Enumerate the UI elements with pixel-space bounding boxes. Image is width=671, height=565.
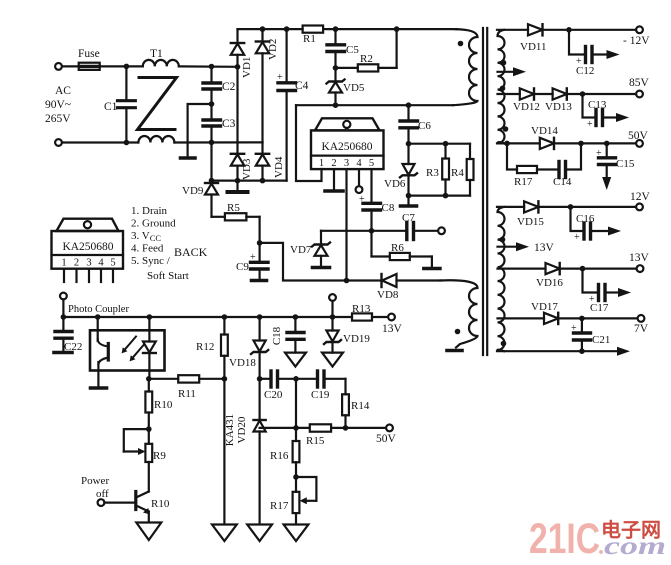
node junction opto collector — [95, 314, 101, 320]
capacitor C13 — [583, 94, 617, 130]
wire C3 to VD9 — [210, 142, 212, 181]
svg-text:C9: C9 — [236, 261, 249, 273]
svg-text:BACK: BACK — [174, 245, 208, 259]
wire VD1 to VD3 — [236, 67, 238, 154]
diode VD19 zener — [324, 317, 341, 353]
svg-text:21IC: 21IC — [529, 515, 600, 563]
diode opto LED — [143, 317, 156, 379]
node junction R3 bottom — [443, 193, 449, 199]
svg-text:C8: C8 — [382, 202, 395, 214]
diode VD20 — [254, 379, 266, 524]
svg-text:2: 2 — [74, 258, 79, 269]
wire arrow C16 return — [608, 227, 621, 236]
svg-text:3: 3 — [86, 258, 91, 269]
node junction VD18 top — [257, 314, 263, 320]
capacitor C12 — [569, 30, 607, 67]
svg-text:R17: R17 — [514, 176, 533, 188]
node junction R3 top — [443, 141, 449, 147]
svg-text:C6: C6 — [418, 120, 431, 132]
wire R16 column top — [295, 379, 297, 441]
resistor R13 — [352, 313, 388, 320]
wire arrow bottom return — [617, 347, 630, 356]
node junction R16 top — [293, 425, 299, 431]
svg-text:VD5: VD5 — [343, 82, 365, 94]
svg-text:5. Sync /: 5. Sync / — [131, 255, 171, 267]
svg-text:+: + — [596, 148, 602, 159]
svg-text:2: 2 — [331, 158, 336, 169]
node junction R16-R17 — [293, 474, 299, 480]
label pin list — [131, 205, 189, 282]
svg-text:R15: R15 — [306, 435, 325, 447]
svg-text:R2: R2 — [360, 53, 373, 65]
transformer T2 primary top winding — [453, 29, 478, 105]
svg-text:C18: C18 — [271, 326, 283, 345]
diode VD2 — [256, 29, 269, 142]
svg-text:+: + — [277, 72, 283, 83]
node junction C3 bottom — [209, 140, 215, 146]
node terminal 50V — [636, 140, 643, 147]
svg-text:1. Drain: 1. Drain — [131, 205, 168, 217]
node junction C21 bottom — [579, 348, 585, 354]
capacitor C1 — [118, 66, 136, 142]
svg-text:VD9: VD9 — [182, 185, 204, 197]
svg-text:com: com — [604, 533, 666, 560]
resistor R17 secondary — [507, 143, 558, 173]
node junction C22 top — [61, 314, 67, 320]
node phase dot secondary 85V — [500, 86, 506, 92]
svg-text:R10: R10 — [154, 399, 173, 411]
diode VD11 — [528, 24, 636, 35]
svg-text:C7: C7 — [402, 212, 415, 224]
svg-text:C3: C3 — [222, 118, 236, 130]
svg-text:1: 1 — [61, 258, 66, 269]
svg-text:5: 5 — [110, 258, 115, 269]
svg-text:Photo Coupler: Photo Coupler — [68, 304, 129, 315]
label pinout numbers — [61, 258, 115, 269]
resistor R9 potentiometer — [124, 429, 152, 491]
diode VD3 — [231, 154, 244, 181]
svg-text:R4: R4 — [451, 167, 464, 179]
svg-text:4: 4 — [98, 258, 104, 269]
svg-text:VD13: VD13 — [545, 101, 572, 113]
svg-text:Fuse: Fuse — [78, 48, 100, 60]
node junction R9 top — [146, 426, 152, 432]
node junction C9 top — [257, 240, 263, 246]
svg-text:VD20: VD20 — [236, 416, 248, 443]
svg-text:1: 1 — [319, 158, 324, 169]
wire pinout leads — [64, 269, 113, 282]
svg-text:C19: C19 — [311, 389, 330, 401]
node junction C14 right — [578, 141, 584, 147]
wire C2-C3 midpoint to ground — [188, 104, 212, 156]
node terminal 7V — [638, 315, 645, 322]
svg-text:C13: C13 — [588, 99, 607, 111]
node junction VD18 bottom — [257, 376, 263, 382]
svg-text:R12: R12 — [196, 341, 214, 353]
node junction VD6 bottom — [406, 193, 412, 199]
ground VD19 — [322, 353, 343, 367]
svg-text:VD14: VD14 — [531, 125, 558, 137]
diode VD13 — [553, 88, 636, 99]
resistor R16 — [293, 441, 300, 477]
svg-text:50V: 50V — [628, 130, 649, 142]
svg-text:VD19: VD19 — [343, 333, 370, 345]
wire feedback top rail — [63, 316, 352, 318]
svg-text:5: 5 — [369, 158, 374, 169]
node junction R14 bottom — [343, 425, 349, 431]
ground KA431 — [212, 525, 237, 542]
wire arrow C12 return — [607, 50, 620, 59]
wire 12V rail — [497, 206, 524, 208]
svg-text:R5: R5 — [227, 202, 240, 214]
svg-text:VD12: VD12 — [513, 101, 540, 113]
node terminal -12V — [636, 26, 643, 33]
node terminal power off — [98, 499, 105, 506]
wire DC- bottom bus — [212, 180, 287, 182]
svg-text:C5: C5 — [346, 44, 359, 56]
wire tap arrow 13V — [498, 242, 530, 251]
svg-text:Soft Start: Soft Start — [147, 270, 189, 282]
svg-text:2. Ground: 2. Ground — [131, 218, 176, 230]
node junction C5-R2 — [333, 65, 339, 71]
node junction pin3 — [344, 278, 350, 284]
ground C9 — [252, 279, 267, 283]
svg-text:C16: C16 — [576, 213, 595, 225]
node junction C5 top — [333, 26, 339, 32]
wire pin1 loop — [296, 105, 322, 181]
node junction pin5-C8 — [369, 228, 375, 234]
wire — [179, 65, 238, 68]
node phase dot secondary 12V — [500, 237, 506, 243]
wire pin4 — [358, 169, 360, 186]
wire secondary bottom rail — [497, 350, 617, 352]
node junction R17 left — [504, 141, 510, 147]
node junction R12 top — [222, 314, 228, 320]
node terminal 50V feedback — [386, 425, 393, 432]
svg-text:265V: 265V — [45, 113, 71, 125]
node terminal 12V — [636, 204, 643, 211]
resistor R6 — [372, 231, 432, 267]
node junction C2-C3 — [209, 101, 215, 107]
wire 50V rail — [497, 142, 540, 144]
node junction C20-C19 — [293, 376, 299, 382]
node junction R2 top — [394, 26, 400, 32]
node junction C6 bottom — [406, 141, 412, 147]
resistor R1 — [303, 26, 324, 33]
svg-text:- 12V: - 12V — [623, 35, 650, 47]
capacitor C21 — [571, 318, 591, 351]
svg-text:90V~: 90V~ — [45, 99, 71, 111]
svg-text:C2: C2 — [222, 81, 236, 93]
svg-text:R9: R9 — [153, 450, 166, 462]
svg-text:4: 4 — [356, 158, 362, 169]
label pin numbers — [319, 158, 374, 169]
svg-text:13V: 13V — [534, 242, 555, 254]
svg-text:R1: R1 — [303, 33, 316, 45]
label AC 90V~265V — [45, 85, 71, 125]
transformer T2 secondary winding 1 — [498, 30, 505, 144]
transformer T2 core — [483, 28, 487, 355]
wire DC+ top bus — [238, 28, 458, 30]
node junction LED bottom — [146, 376, 152, 382]
node phase dot secondary -12V — [501, 60, 507, 66]
node phase dot secondary bottom — [501, 341, 507, 347]
wire VD7 branch — [321, 230, 372, 232]
svg-text:VD18: VD18 — [229, 357, 256, 369]
capacitor C14 — [559, 143, 581, 177]
wire C9 junction to VD8 line — [260, 243, 382, 281]
capacitor C6 — [400, 105, 418, 144]
svg-text:T1: T1 — [150, 48, 163, 60]
node junction C6 top — [406, 102, 412, 108]
op-amp U1 KA250680 package — [311, 118, 384, 169]
svg-text:R10: R10 — [151, 498, 170, 510]
svg-text:VD4: VD4 — [273, 156, 285, 178]
svg-text:VD8: VD8 — [377, 289, 399, 301]
wire R3 R4 top — [409, 143, 471, 145]
node junction R12 bottom — [222, 376, 228, 382]
node junction C16 top — [568, 204, 574, 210]
svg-text:+: + — [359, 194, 365, 205]
node AC input terminal top — [55, 63, 62, 70]
diode VD8 — [382, 274, 442, 287]
transformer T2 secondary winding 2 — [498, 207, 505, 351]
core T1 Z symbol — [138, 78, 177, 130]
resistor R12 — [221, 317, 228, 379]
svg-text:+: + — [571, 323, 577, 334]
svg-text:R3: R3 — [426, 167, 439, 179]
svg-text:+: + — [250, 252, 256, 263]
node pin4 terminal — [356, 186, 363, 193]
svg-text:AC: AC — [55, 85, 71, 97]
capacitor C4 — [277, 29, 296, 181]
node C7 terminal — [438, 227, 445, 234]
inductor T1 bottom winding — [138, 136, 174, 142]
node junction C1 bottom — [124, 140, 130, 146]
node junction VD4 bottom — [260, 178, 266, 184]
wire pin3 column — [345, 169, 347, 280]
svg-text:VD2: VD2 — [267, 39, 279, 60]
capacitor C20 — [260, 371, 296, 387]
ground VD20 — [247, 525, 272, 542]
capacitor C5 — [327, 29, 345, 68]
diode VD5 zener — [327, 68, 345, 105]
wire — [174, 141, 262, 143]
node junction C2 top — [209, 64, 215, 70]
op-amp U2 KA250680 pinout package — [52, 219, 124, 269]
ground VD6 — [401, 196, 417, 206]
diode VD14 — [540, 138, 636, 149]
node phase dot secondary 50V — [503, 126, 509, 132]
node terminal 85V — [636, 91, 643, 98]
svg-text:Power: Power — [81, 475, 109, 487]
node junction VD5 bottom — [333, 102, 339, 108]
diode VD7 zener — [312, 231, 330, 266]
node junction VD2 top — [260, 26, 266, 32]
ground opto emitter — [91, 386, 107, 390]
wire 7V rail — [498, 317, 545, 319]
resistor R14 — [342, 379, 349, 428]
wire R3 R4 bottom — [409, 195, 471, 197]
wire terminal to rail — [331, 301, 333, 317]
ground — [181, 156, 196, 160]
node terminal feedback — [329, 294, 336, 301]
svg-text:13V: 13V — [629, 252, 650, 264]
resistor R4 — [467, 144, 474, 196]
node junction VD9 top — [209, 178, 215, 184]
svg-text:13V: 13V — [382, 323, 403, 335]
capacitor C7 — [372, 223, 439, 240]
diode VD17 — [544, 313, 638, 324]
node junction C18 top — [293, 314, 299, 320]
label Power off — [81, 475, 109, 500]
svg-text:VD16: VD16 — [536, 277, 563, 289]
wire terminal down — [62, 299, 64, 317]
svg-text:C1: C1 — [104, 101, 118, 113]
node junction VD1-AC — [235, 64, 241, 70]
wire — [62, 65, 79, 67]
svg-text:VD7: VD7 — [290, 244, 312, 256]
wire 85V rail — [498, 93, 520, 95]
svg-text:C21: C21 — [592, 334, 610, 346]
svg-text:R11: R11 — [178, 388, 196, 400]
svg-text:VD11: VD11 — [520, 41, 546, 53]
capacitor C15 — [596, 143, 616, 177]
svg-text:+: + — [574, 232, 580, 243]
node terminal 13V feedback — [388, 314, 395, 321]
svg-text:50V: 50V — [376, 433, 397, 445]
diode VD6 zener — [400, 144, 417, 196]
node terminal 13V — [637, 265, 644, 272]
wire arrow C13 return — [616, 113, 629, 122]
capacitor C8 — [359, 194, 381, 231]
svg-text:VD1: VD1 — [241, 57, 253, 78]
capacitor C22 — [55, 317, 72, 351]
wire KA431 column — [223, 379, 225, 524]
wire 13V rail — [498, 268, 546, 270]
svg-text:R17: R17 — [270, 500, 289, 512]
capacitor C3 — [203, 104, 221, 142]
wire drain rail — [296, 104, 453, 106]
svg-text:KA431: KA431 — [224, 414, 236, 446]
node junction C12 top — [566, 27, 572, 33]
optocoupler U3 box — [90, 330, 165, 370]
capacitor C16 — [571, 207, 609, 243]
node junction LED top — [147, 314, 153, 320]
ground bridge return — [228, 181, 248, 192]
svg-text:+: + — [587, 119, 593, 130]
svg-text:C4: C4 — [295, 80, 309, 92]
diode VD16 — [546, 263, 637, 274]
svg-text:C14: C14 — [553, 176, 572, 188]
inductor T1 top winding — [143, 60, 179, 66]
svg-text:off: off — [96, 488, 109, 500]
svg-text:R16: R16 — [270, 450, 289, 462]
capacitor C19 — [296, 371, 346, 387]
node junction — [124, 64, 130, 70]
node junction C21 top — [579, 316, 585, 322]
ground R6 — [424, 267, 440, 271]
resistor R10 — [145, 379, 152, 429]
wire light arrows — [122, 337, 144, 362]
resistor R3 — [442, 144, 449, 196]
wire arrow C17 return — [618, 288, 631, 297]
svg-text:C17: C17 — [590, 302, 609, 314]
svg-text:3: 3 — [344, 158, 349, 169]
ground R17 — [284, 525, 309, 542]
diode VD12 — [520, 88, 553, 99]
svg-text:R14: R14 — [351, 400, 370, 412]
diode VD4 — [256, 142, 269, 180]
ground C18 — [285, 353, 306, 367]
svg-text:VD3: VD3 — [241, 158, 253, 180]
node phase dot primary top — [458, 41, 464, 47]
wire tap arrow ground — [498, 67, 527, 76]
svg-text:KA250680: KA250680 — [321, 141, 372, 153]
ground VD7 — [313, 266, 330, 270]
resistor R15 — [310, 424, 331, 431]
svg-text:7V: 7V — [634, 323, 649, 335]
svg-text:VD6: VD6 — [384, 178, 406, 190]
wire — [62, 141, 138, 143]
svg-text:C15: C15 — [616, 158, 635, 170]
ground primary bottom — [447, 349, 462, 353]
transistor opto phototransistor — [98, 317, 109, 387]
fuse Fuse — [79, 63, 100, 70]
diode VD9 — [205, 183, 218, 217]
ground transistor emitter — [136, 523, 161, 541]
svg-text:C12: C12 — [576, 65, 594, 77]
capacitor C17 — [583, 269, 619, 305]
svg-text:R13: R13 — [352, 303, 371, 315]
wire arrow C15 return — [602, 177, 611, 190]
diode VD15 — [524, 201, 636, 212]
node phase dot primary bottom — [455, 329, 461, 335]
transformer T2 primary bottom winding — [440, 280, 478, 347]
svg-text:85V: 85V — [629, 77, 650, 89]
wire pin2 — [333, 169, 335, 189]
svg-text:3. VCC: 3. VCC — [131, 230, 161, 243]
resistor R17 potentiometer feedback — [293, 477, 317, 524]
ground C22 — [54, 351, 72, 355]
resistor R2 — [336, 29, 397, 71]
svg-text:VD17: VD17 — [531, 301, 558, 313]
svg-text:KA250680: KA250680 — [62, 241, 113, 253]
wire — [100, 65, 143, 67]
svg-text:R6: R6 — [391, 242, 404, 254]
capacitor C9 — [250, 243, 268, 279]
svg-text:4. Feed: 4. Feed — [131, 243, 164, 255]
wire 50V feedback rail — [260, 427, 386, 429]
diode VD1 — [231, 29, 244, 67]
transistor Q1 — [104, 492, 150, 523]
node junction C15 top — [604, 141, 610, 147]
node junction C13 top — [580, 91, 586, 97]
resistor R5 — [212, 213, 260, 243]
wire -12V rail — [497, 29, 528, 31]
ground pin2 — [325, 189, 343, 193]
capacitor C18 — [287, 317, 304, 353]
node junction C17 top — [580, 266, 586, 272]
capacitor C2 — [203, 67, 221, 105]
svg-text:VD15: VD15 — [517, 216, 544, 228]
svg-text:12V: 12V — [630, 191, 651, 203]
resistor R11 — [149, 375, 225, 382]
svg-text:C20: C20 — [264, 389, 283, 401]
node AC input terminal bottom — [55, 139, 62, 146]
node feedback terminal — [60, 293, 67, 300]
node junction C4 top — [284, 26, 290, 32]
